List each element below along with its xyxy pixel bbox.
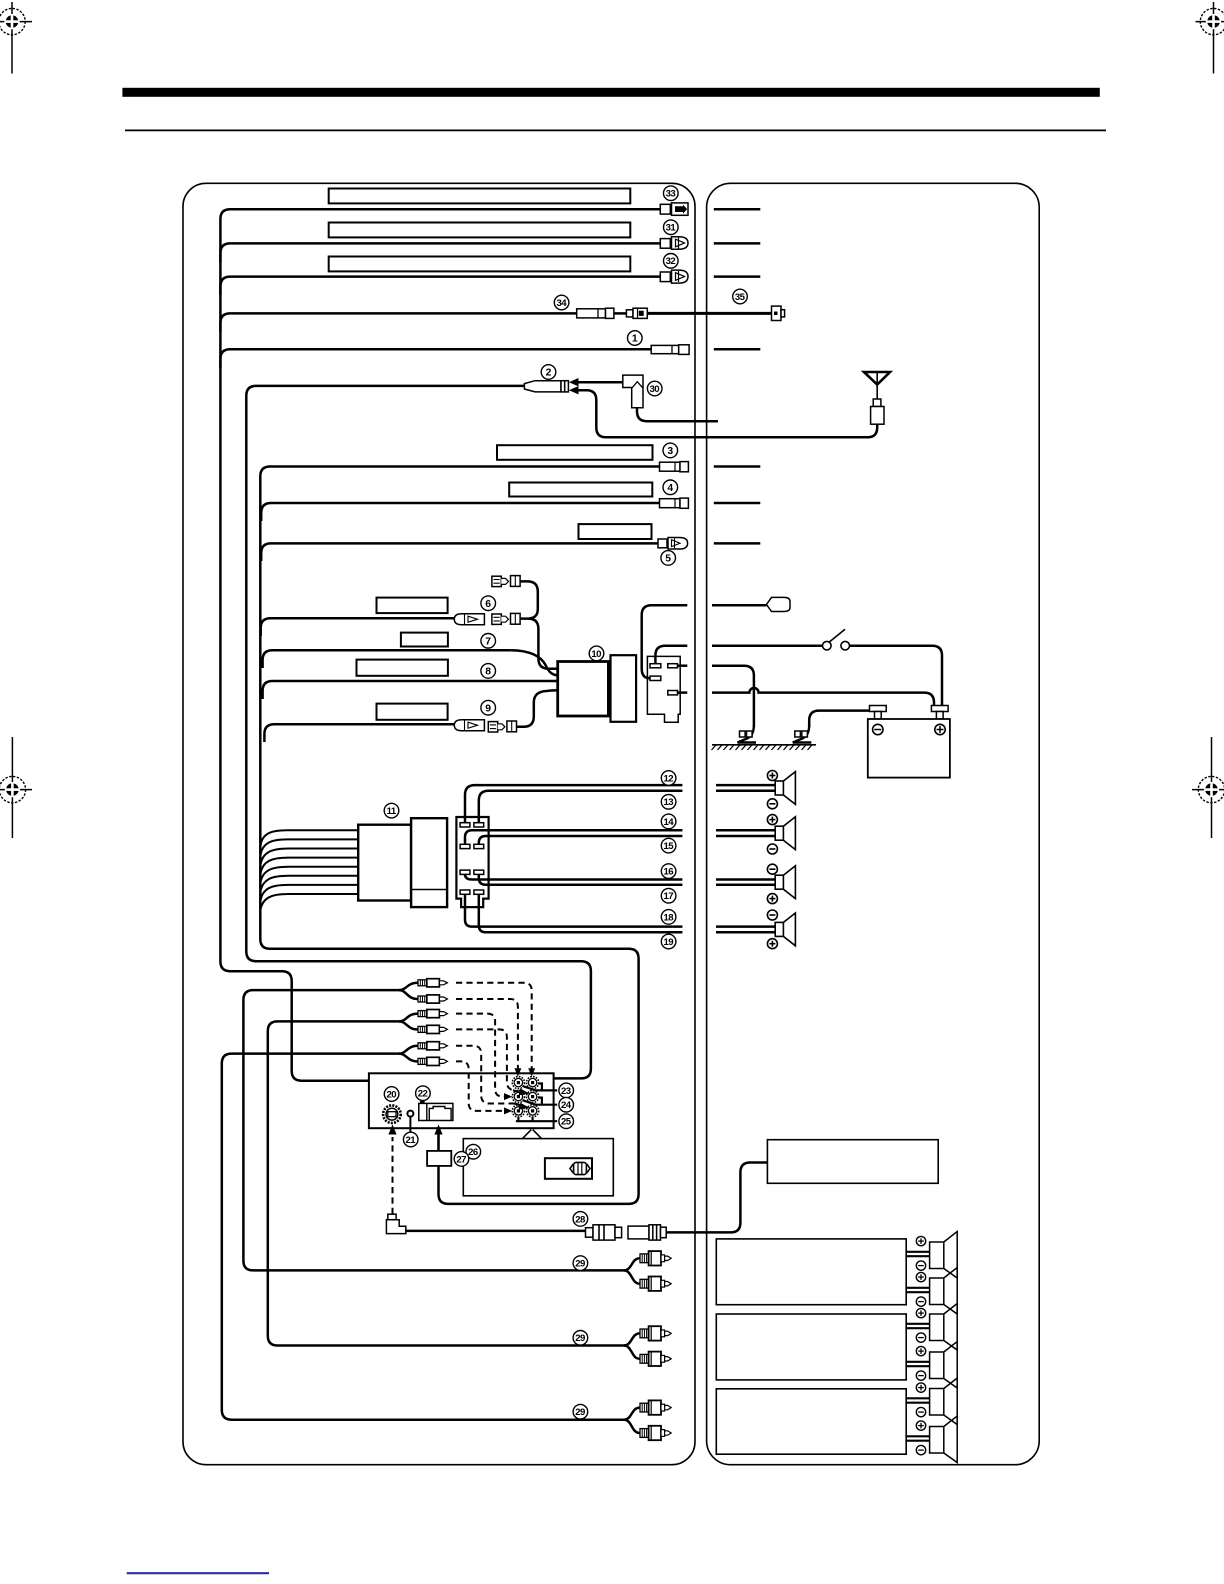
svg-text:31: 31 xyxy=(666,223,677,234)
svg-text:8: 8 xyxy=(485,667,491,678)
svg-text:32: 32 xyxy=(666,256,676,267)
svg-text:16: 16 xyxy=(663,867,673,878)
svg-text:22: 22 xyxy=(418,1089,428,1100)
svg-text:27: 27 xyxy=(456,1154,466,1165)
svg-text:33: 33 xyxy=(666,189,676,200)
svg-text:17: 17 xyxy=(663,891,673,902)
svg-text:26: 26 xyxy=(468,1147,478,1158)
svg-text:28: 28 xyxy=(575,1214,586,1225)
svg-text:10: 10 xyxy=(591,649,601,660)
svg-text:29: 29 xyxy=(575,1333,585,1344)
svg-text:11: 11 xyxy=(387,806,397,817)
svg-text:30: 30 xyxy=(650,384,660,395)
svg-text:12: 12 xyxy=(663,773,673,784)
svg-text:6: 6 xyxy=(485,599,491,610)
svg-text:4: 4 xyxy=(667,483,673,494)
svg-text:25: 25 xyxy=(561,1117,572,1128)
svg-text:29: 29 xyxy=(575,1407,585,1418)
svg-text:19: 19 xyxy=(663,937,673,948)
svg-text:15: 15 xyxy=(663,841,674,852)
svg-text:24: 24 xyxy=(561,1100,572,1111)
svg-text:2: 2 xyxy=(546,368,552,379)
svg-text:1: 1 xyxy=(632,334,638,345)
svg-text:9: 9 xyxy=(485,703,491,714)
svg-text:35: 35 xyxy=(735,292,746,303)
svg-text:29: 29 xyxy=(575,1259,585,1270)
svg-text:18: 18 xyxy=(663,912,674,923)
svg-text:7: 7 xyxy=(485,637,491,648)
svg-text:5: 5 xyxy=(665,554,671,565)
svg-text:14: 14 xyxy=(663,817,674,828)
svg-text:23: 23 xyxy=(561,1086,571,1097)
svg-text:21: 21 xyxy=(406,1135,417,1146)
svg-text:20: 20 xyxy=(386,1089,396,1100)
svg-text:13: 13 xyxy=(663,797,673,808)
svg-text:34: 34 xyxy=(556,298,567,309)
svg-text:3: 3 xyxy=(667,446,673,457)
